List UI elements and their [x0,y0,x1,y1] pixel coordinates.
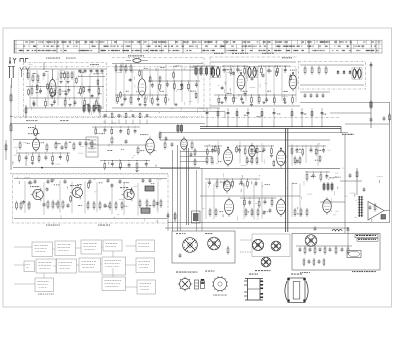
parts list table [14,40,382,53]
block diagram links [14,246,137,287]
audio clutter [17,177,162,223]
sync upper comb [205,179,260,189]
IF clutter [117,62,203,113]
sync resistors [209,208,308,217]
tuner ground row [26,98,104,110]
sound bottom rails [10,167,200,174]
video scatter parts [214,145,321,167]
block diagram box B3 [81,240,102,254]
IF bottom wires [100,103,225,112]
detector scatter parts [221,70,292,97]
ratio detector dashed box [299,62,366,90]
tube V1 [49,77,56,99]
sync clutter [203,173,313,221]
dark resistor pair [177,124,183,134]
tube V11 [277,197,286,217]
audio labels [30,185,128,226]
IF comb mid [115,95,168,107]
tube V2 [138,76,146,97]
dotted screen line [18,68,20,117]
power label [352,271,376,272]
upper small comb [92,127,140,136]
tuner comb mid [26,86,104,97]
tuner labels [26,58,99,122]
component value labels [27,66,341,215]
block diagram box B1 [32,242,53,257]
block diagram box B11 [102,277,126,291]
video vwires [218,141,318,166]
IF input resistors [115,64,132,73]
audio transformer [141,186,154,213]
volume control rear [178,277,192,291]
power label 2 [348,232,376,246]
osc clutter [12,140,163,167]
block diagram box B8 [79,258,101,272]
oscillator section [13,140,93,165]
tuner vertical wires [30,70,103,107]
volume resistor bank [83,104,100,114]
detector ground row [210,101,300,106]
FM AF coil [28,125,38,135]
dark resistor trio [323,182,333,191]
heater wiring [165,226,349,232]
coil L3 [126,55,148,62]
block diagram box B13 [136,258,155,273]
IF dashed outline [112,58,204,114]
audio dashed outline [13,174,169,223]
block diagram box B6 [36,259,57,273]
tuner scatter parts [28,77,99,99]
IF vertical wires [116,64,198,105]
IF transformer T2 [247,66,257,78]
tuner dashed outline [24,63,107,118]
socket cluster outline [252,234,290,257]
deflection parts [320,170,376,212]
right feed wires [330,62,391,222]
sync vwires [206,182,300,219]
tube socket S4 [271,241,281,251]
IF transformer T1 [211,66,221,78]
detector dashed outline [210,57,298,110]
rail comb [206,108,324,127]
interconnect stubs [100,112,225,119]
block diagram box B5 [24,261,35,272]
detector clutter [217,65,298,101]
terminal strip [86,137,98,157]
rotary wafer [212,276,228,292]
audio scatter parts [22,182,158,206]
tube V12 [323,197,332,215]
tuner clutter [28,64,103,115]
tube socket S3 [252,239,263,250]
screen resistor bank [193,66,215,76]
tube V4 [289,72,297,91]
connector pair [195,279,205,289]
audio mid resistors [87,201,123,210]
transistor Q1 [31,188,43,202]
B+ rails [12,116,354,140]
fuse holder [192,211,201,223]
deflection clutter [328,168,382,222]
sound comb [100,160,150,172]
sync inner column [190,148,196,167]
power filter comb [296,246,352,255]
sync rails [168,196,390,223]
dipole feed [8,67,15,89]
ratio det lower parts [300,92,330,103]
detector lower comb [214,95,296,107]
feeder symbol [20,59,28,63]
left rail comb [104,112,149,124]
socket cluster wires [240,240,271,271]
tuner bypass caps [78,69,105,77]
block diagram box B4 [103,240,122,251]
left AGC divider [5,85,27,170]
audio top caps [29,178,152,185]
block diagram box B7 [56,259,77,273]
osc extra parts [46,142,75,152]
block diagram box B9 [102,257,126,275]
boundary dash-dot [14,117,340,119]
IF comb upper [148,81,200,92]
tube socket S5 [261,257,271,267]
bus corner links [180,152,215,162]
audio rails [14,179,167,219]
vertical feeds left [173,145,203,231]
tube V6 sound IF [146,137,155,156]
block diagram box B10 [35,278,54,292]
video rails [160,140,340,168]
power supply box [292,234,380,271]
coil pair right [352,67,362,79]
tube V10 [225,197,234,217]
power second comb [303,258,325,267]
tube V7 [224,147,233,167]
block diagram box B2 [55,241,76,256]
limiter stage [160,136,200,152]
mid rail clutter [92,106,205,123]
selenium rectifier [347,251,361,258]
top dash-dot [24,66,296,68]
block diagram caption [38,294,54,295]
tube V8 [277,148,286,168]
tube V5 osc [33,136,40,152]
tuner wiring top [24,63,106,80]
tube socket S2 [208,237,221,250]
socket box details [176,233,229,258]
video combs [204,146,326,158]
vertical feeds right [345,135,357,233]
audio bias resistors [16,200,70,210]
audio out resistors [139,199,162,208]
IF top wires [112,64,203,79]
video resistors [206,156,301,165]
tube socket S1 [183,238,198,253]
detector vertical wires [226,66,296,104]
tube V9 [224,178,231,193]
output transformer drawing [285,274,308,303]
tuner input resistors [27,71,45,83]
transistor Q3 [122,188,134,202]
tube V8b [249,143,256,160]
antenna terminals [20,67,30,77]
tube V3 [237,72,245,91]
yoke triangle [368,202,390,221]
block diagram box B14 [137,280,156,294]
IF can drawing [244,274,263,301]
detector top comb [210,62,296,76]
deflection top comb [305,172,330,182]
socket box feeds [167,212,176,231]
socket box outline [172,231,235,263]
HT vertical pair [286,129,288,233]
block diagram box B12 [136,240,155,252]
audio vwires [25,180,158,215]
video clutter [209,143,331,165]
transistor Q2 [71,186,83,199]
cathode resistors [59,71,73,84]
antenna input arrow and Y [9,57,16,64]
ratio detector diodes [300,65,364,85]
flyback winding [358,196,364,217]
socket box label [176,272,198,273]
wafer label [213,295,227,296]
sync comb [240,198,276,209]
IF scatter parts [120,69,197,99]
sound mid parts [90,131,167,155]
osc labels [28,133,148,135]
tube socket S6 [305,235,317,247]
bottom captions [205,271,310,274]
tube labels [214,53,292,59]
